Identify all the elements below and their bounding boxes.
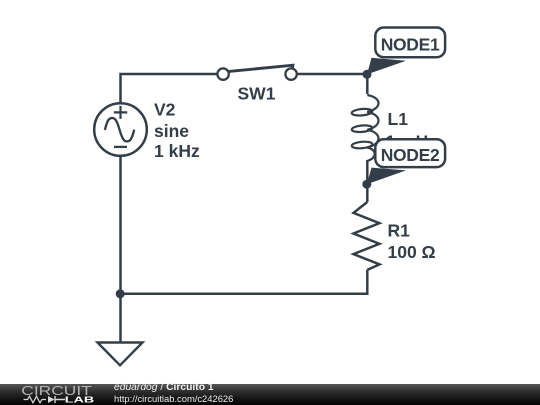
wire from inductor L1 bottom to NODE2 junction and resistor R1 top: [366, 160, 369, 202]
ground: [98, 343, 143, 366]
svg-text:V2: V2: [154, 99, 176, 119]
resistor R1: [354, 202, 380, 270]
junction dot ground node: [116, 289, 125, 298]
svg-text:LAB: LAB: [65, 395, 95, 404]
footer CircuitLab logo: [0, 384, 110, 405]
svg-text:NODE1: NODE1: [381, 35, 440, 55]
svg-text:L1: L1: [388, 109, 409, 129]
wire bottom horizontal from ground junction to resistor branch: [121, 270, 368, 294]
svg-text:SW1: SW1: [238, 84, 276, 104]
inductor L1: [351, 95, 378, 161]
wire from switch SW1 right terminal to node NODE1 junction: [298, 73, 368, 76]
footer credit text line 2: [114, 394, 233, 403]
footer credit text line 1: [114, 383, 214, 393]
junction dot NODE2: [362, 180, 371, 189]
wire top-left horizontal from V2 corner to switch SW1 left terminal: [121, 74, 217, 103]
svg-text:1 kHz: 1 kHz: [154, 141, 200, 161]
svg-text:100 Ω: 100 Ω: [388, 242, 436, 262]
switch SW1: [217, 65, 296, 80]
footer bar: [0, 384, 540, 405]
svg-text:NODE2: NODE2: [381, 145, 440, 165]
voltage source V2: [94, 103, 147, 156]
wire from NODE1 junction down to inductor L1 top: [366, 74, 369, 94]
svg-text:R1: R1: [388, 221, 411, 241]
svg-text:sine: sine: [154, 121, 189, 141]
node NODE2 flag: [367, 139, 445, 184]
junction dot NODE1: [363, 70, 372, 79]
wire left vertical from V2 bottom through ground junction: [119, 156, 122, 343]
node NODE1 flag: [367, 28, 445, 75]
label V2 name and value: [154, 99, 200, 161]
